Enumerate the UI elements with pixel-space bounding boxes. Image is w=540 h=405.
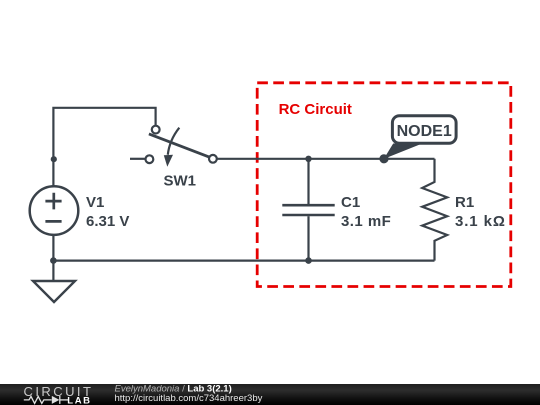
- svg-text:V1: V1: [86, 194, 104, 211]
- svg-text:C1: C1: [341, 194, 360, 211]
- svg-text:6.31 V: 6.31 V: [86, 213, 129, 230]
- svg-text:3.1 kΩ: 3.1 kΩ: [455, 213, 506, 230]
- svg-text:LAB: LAB: [67, 395, 91, 405]
- svg-text:3.1 mF: 3.1 mF: [341, 213, 391, 230]
- svg-text:SW1: SW1: [164, 173, 197, 190]
- svg-text:http://circuitlab.com/c734ahre: http://circuitlab.com/c734ahreer3by: [115, 393, 263, 404]
- svg-text:NODE1: NODE1: [397, 123, 452, 140]
- svg-text:RC Circuit: RC Circuit: [279, 101, 352, 118]
- svg-text:R1: R1: [455, 194, 474, 211]
